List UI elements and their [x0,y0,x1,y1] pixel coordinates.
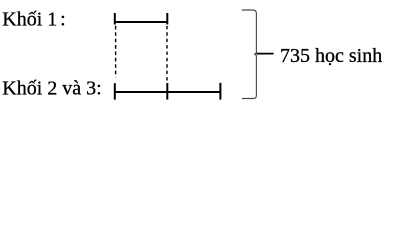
tick top-right [166,13,168,25]
tick top-left [114,13,116,25]
svg-text:735 học sinh: 735 học sinh [280,45,382,67]
segment Khối 1 (top bar) [115,21,168,23]
svg-text:Khối 1: Khối 1 [2,8,57,30]
tick bottom-middle [166,83,168,100]
segment Khối 2 và 3 (bottom bar) [115,91,221,93]
tick bottom-right [219,83,221,100]
dashed line left [115,26,117,77]
tick bottom-left [114,83,116,99]
brace [242,10,257,99]
dashed line right [166,26,168,81]
svg-text:Khối 2 và 3:: Khối 2 và 3: [2,78,101,100]
svg-text::: : [60,8,66,30]
connector line [257,53,274,55]
